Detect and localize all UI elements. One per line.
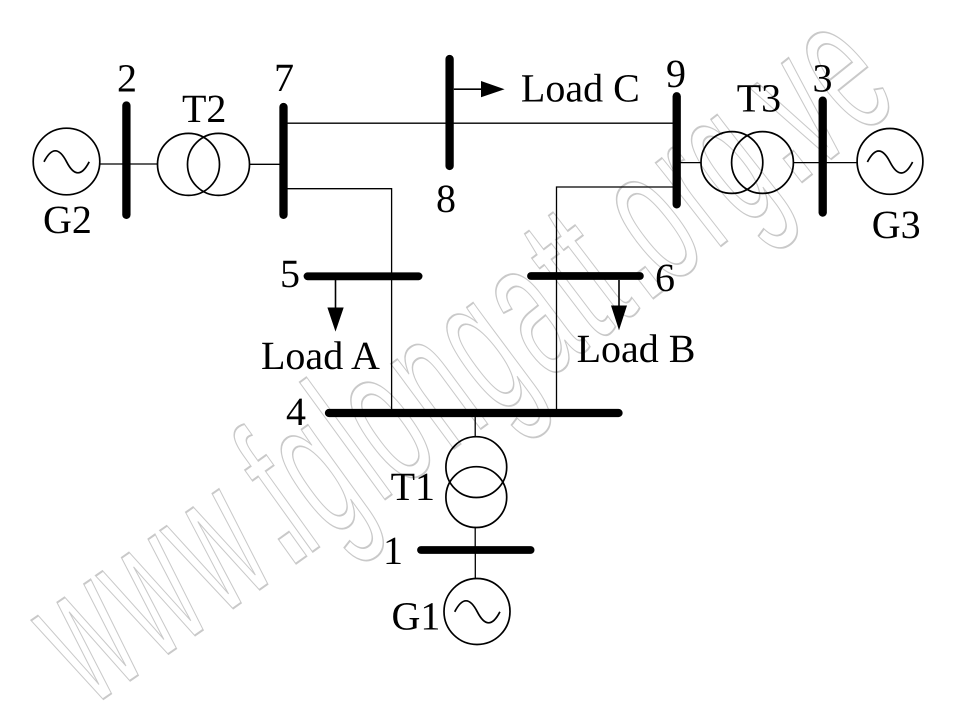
svg-text:T1: T1 (391, 464, 435, 509)
bus 3 (819, 101, 827, 213)
svg-text:4: 4 (286, 389, 306, 434)
generator G2 (33, 128, 100, 195)
load C arrow (454, 81, 505, 97)
svg-text:G1: G1 (392, 593, 441, 638)
generator G1 (444, 579, 510, 645)
svg-text:Load C: Load C (521, 66, 640, 111)
transformer T3 (701, 132, 793, 194)
bus 4 (329, 409, 619, 417)
svg-text:Load B: Load B (577, 326, 696, 371)
transformer T2 (158, 133, 250, 195)
bus 9 (673, 96, 681, 204)
wire bus 4 to T1 (474, 413, 476, 437)
bus 7 (279, 107, 287, 215)
bus 2 (122, 106, 130, 215)
svg-text:T2: T2 (182, 86, 226, 131)
svg-text:2: 2 (117, 56, 137, 101)
wire bus 7 to bus 4 (line 7-5-4) (284, 189, 392, 413)
svg-text:6: 6 (655, 255, 675, 300)
svg-text:7: 7 (274, 55, 294, 100)
wire bus 1 to G1 (474, 550, 476, 579)
svg-text:8: 8 (436, 176, 456, 221)
wire bus 9 to bus 4 (line 9-6-4) (557, 187, 677, 413)
svg-text:3: 3 (813, 55, 833, 100)
wire T2 to bus 7 (250, 163, 284, 165)
wire T1 to bus 1 (474, 527, 476, 550)
bus 1 (421, 546, 531, 554)
load B arrow (611, 280, 627, 330)
load A arrow (327, 280, 343, 332)
svg-text:Load A: Load A (261, 333, 380, 378)
wire G2 to T2 (99, 163, 157, 165)
wire bus 7 to bus 9 (line 7-8-9) (284, 122, 677, 124)
bus 5 (308, 272, 419, 280)
transformer T1 (446, 437, 507, 528)
generator G3 (857, 129, 923, 195)
svg-text:5: 5 (280, 251, 300, 296)
wire T3 to bus 3 to G3 (793, 162, 857, 164)
svg-text:T3: T3 (737, 76, 781, 121)
svg-text:G3: G3 (872, 202, 921, 247)
bus 8 (445, 59, 453, 166)
svg-text:G2: G2 (43, 197, 92, 242)
svg-text:1: 1 (383, 528, 403, 573)
wire bus 9 to T3 (677, 162, 702, 164)
bus 6 (531, 272, 640, 280)
svg-text:9: 9 (666, 51, 686, 96)
